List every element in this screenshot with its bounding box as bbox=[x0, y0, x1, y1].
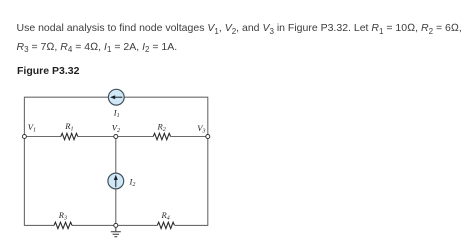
wire middle-right bbox=[171, 136, 208, 138]
svg-text:V2: V2 bbox=[112, 123, 120, 135]
node V2 bbox=[114, 135, 118, 139]
wire bottom-center bbox=[72, 224, 157, 226]
current source I2 bbox=[108, 173, 124, 189]
node ground junction bbox=[114, 223, 118, 227]
svg-text:V1: V1 bbox=[28, 122, 36, 134]
resistor R1 bbox=[61, 133, 78, 139]
svg-text:R1: R1 bbox=[64, 121, 73, 133]
wire center vertical bbox=[115, 137, 117, 226]
wire bottom-right bbox=[175, 224, 208, 226]
ground bbox=[111, 228, 121, 237]
svg-text:I1: I1 bbox=[113, 108, 120, 120]
resistor R4 bbox=[157, 222, 174, 228]
resistor R3 bbox=[54, 222, 72, 228]
node V1 bbox=[22, 135, 26, 139]
wire right bbox=[207, 97, 209, 226]
current source I1 bbox=[108, 89, 124, 105]
svg-text:R4: R4 bbox=[161, 210, 170, 222]
resistor R2 bbox=[153, 133, 170, 139]
wire middle-center bbox=[78, 136, 154, 138]
wire middle-left bbox=[24, 136, 61, 138]
wire top bbox=[24, 96, 207, 98]
node V3 bbox=[206, 135, 210, 139]
svg-text:I2: I2 bbox=[129, 177, 136, 189]
current source I1 arrow bbox=[114, 96, 123, 98]
wire left bbox=[23, 97, 25, 226]
current source I2 arrow bbox=[115, 179, 117, 187]
svg-text:R3: R3 bbox=[58, 210, 67, 222]
svg-text:V3: V3 bbox=[197, 123, 205, 135]
svg-text:R2: R2 bbox=[157, 122, 166, 134]
wire bottom-left bbox=[24, 224, 54, 226]
